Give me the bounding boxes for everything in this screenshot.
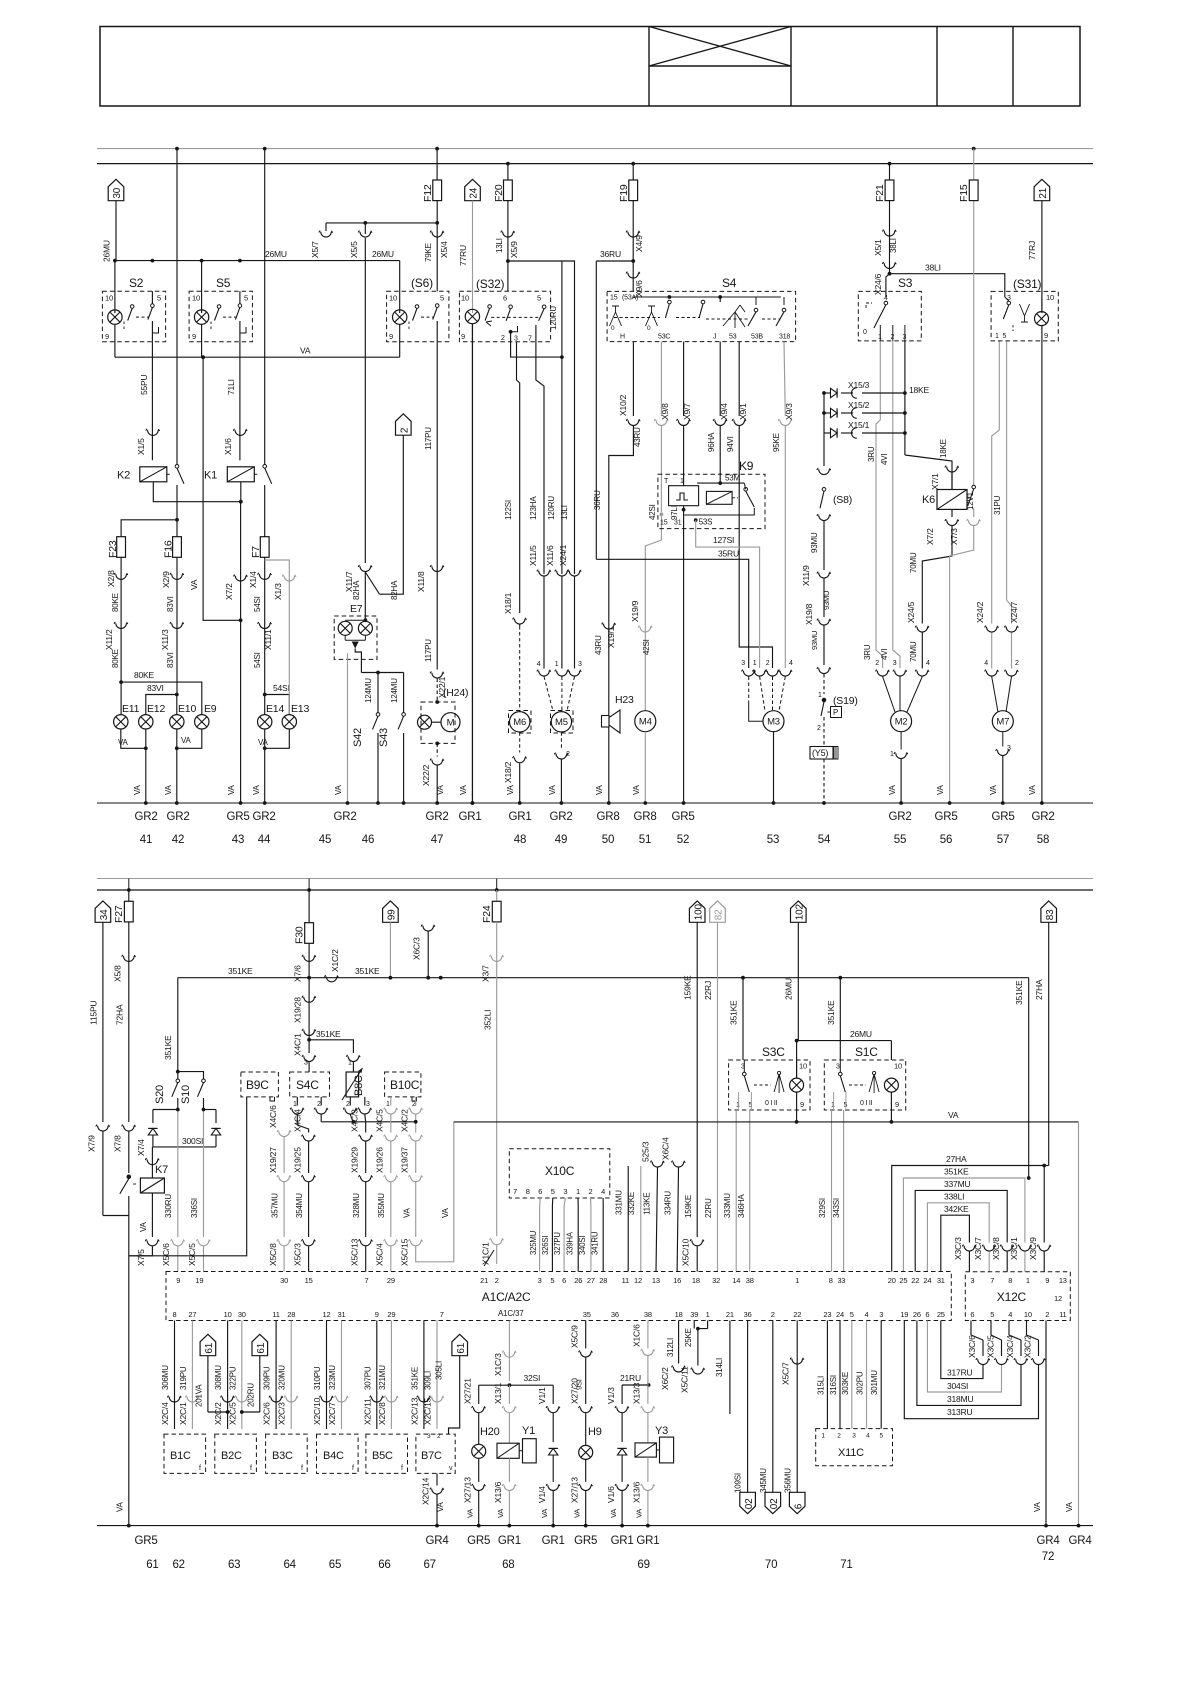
svg-text:GR5: GR5 <box>134 1535 157 1547</box>
svg-text:S10: S10 <box>180 1085 192 1104</box>
wire pin 36 109SI arrow 02 <box>747 1321 749 1493</box>
svg-text:B4C: B4C <box>323 1450 344 1462</box>
svg-text:1: 1 <box>795 1276 799 1285</box>
svg-text:351KE: 351KE <box>944 1167 969 1177</box>
svg-text:202RU: 202RU <box>247 1383 256 1407</box>
svg-text:18: 18 <box>675 1310 683 1319</box>
svg-text:316SI: 316SI <box>829 1375 838 1395</box>
fuse F20 <box>507 164 509 180</box>
svg-text:X2C/8: X2C/8 <box>377 1402 387 1425</box>
wire 120RU to M5 <box>561 357 563 568</box>
svg-text:68: 68 <box>502 1559 514 1571</box>
svg-text:120RU: 120RU <box>547 496 556 520</box>
wire 352LI <box>496 922 498 1236</box>
svg-text:7: 7 <box>528 336 532 343</box>
nested wires 317RU 304SI 318MU 313RU <box>904 1321 1038 1419</box>
svg-text:16: 16 <box>673 1276 681 1285</box>
svg-text:X27/20: X27/20 <box>570 1378 580 1404</box>
svg-text:3: 3 <box>836 1064 840 1071</box>
column X4C/6 X19/27 X5C/8 to pin 30 <box>277 1130 291 1136</box>
svg-text:318: 318 <box>779 334 790 341</box>
arrow 83 <box>1041 901 1057 922</box>
svg-text:351KE: 351KE <box>1014 980 1024 1005</box>
svg-text:45: 45 <box>319 834 331 846</box>
svg-text:1: 1 <box>680 478 684 485</box>
svg-text:X19/8: X19/8 <box>804 603 814 625</box>
svg-text:X24/5: X24/5 <box>906 601 916 623</box>
svg-text:61: 61 <box>456 1342 467 1353</box>
svg-text:M6: M6 <box>513 717 526 728</box>
svg-text:X7/5: X7/5 <box>136 1249 146 1266</box>
svg-text:307PU: 307PU <box>363 1366 372 1390</box>
svg-text:10: 10 <box>894 1062 902 1071</box>
svg-text:V1/6: V1/6 <box>606 1486 616 1503</box>
svg-text:X1C/1: X1C/1 <box>481 1242 491 1265</box>
svg-text:72HA: 72HA <box>115 1004 125 1025</box>
svg-text:351KE: 351KE <box>729 1000 739 1025</box>
wire 26MU link S3C S1C <box>795 1039 799 1043</box>
svg-text:E10: E10 <box>178 703 196 715</box>
svg-text:(S31): (S31) <box>1013 277 1042 291</box>
svg-text:GR2: GR2 <box>549 811 572 823</box>
svg-text:X5C/3: X5C/3 <box>293 1243 303 1266</box>
motor M5 with connectors <box>543 568 545 574</box>
svg-text:55: 55 <box>894 834 906 846</box>
svg-text:2: 2 <box>589 1187 593 1196</box>
svg-text:X5C/7: X5C/7 <box>781 1362 791 1385</box>
svg-text:26MU: 26MU <box>102 240 112 262</box>
svg-text:M3: M3 <box>767 717 780 728</box>
wire K2/K1 coil common <box>153 482 241 502</box>
wire 159KE to pin 18 <box>696 922 698 1237</box>
svg-text:VA: VA <box>548 784 557 795</box>
svg-text:M: M <box>447 718 455 729</box>
svg-text:312LI: 312LI <box>666 1338 675 1357</box>
svg-text:F16: F16 <box>163 540 175 558</box>
svg-text:159KE: 159KE <box>683 975 693 1000</box>
upper ground rail <box>97 802 1093 804</box>
svg-text:X27/21: X27/21 <box>463 1378 473 1404</box>
svg-text:3: 3 <box>970 1276 974 1285</box>
svg-text:13LI: 13LI <box>560 505 569 520</box>
svg-text:24: 24 <box>836 1310 844 1319</box>
svg-text:3RU: 3RU <box>863 644 872 660</box>
svg-text:34: 34 <box>99 909 110 920</box>
svg-text:X4C/1: X4C/1 <box>293 1033 303 1056</box>
svg-text:26: 26 <box>913 1310 921 1319</box>
svg-text:F7: F7 <box>250 546 262 558</box>
svg-text:H: H <box>620 334 625 341</box>
wire S3C pin 9 to VA <box>796 1092 798 1122</box>
svg-text:3: 3 <box>514 336 518 343</box>
svg-text:X5/9: X5/9 <box>509 241 519 258</box>
svg-text:X7/2: X7/2 <box>925 528 935 545</box>
wire VA collector upper <box>115 356 400 358</box>
svg-text:GR4: GR4 <box>1036 1535 1060 1547</box>
wire 82HA X5/5 to X11/7 <box>364 238 366 563</box>
wire pin 22 356MU arrow 6 <box>796 1321 798 1493</box>
lower feed rail (gray) <box>97 878 1093 880</box>
svg-text:31PU: 31PU <box>993 495 1002 515</box>
svg-text:X1/5: X1/5 <box>136 438 146 455</box>
wire from feed rail through K2 contact <box>176 149 178 465</box>
svg-text:13: 13 <box>1059 1276 1067 1285</box>
svg-text:113KE: 113KE <box>643 1193 652 1215</box>
wire 117PU <box>436 342 438 670</box>
wire 115PU <box>102 922 104 1122</box>
svg-text:19: 19 <box>195 1276 203 1285</box>
svg-text:X7/2: X7/2 <box>224 583 234 600</box>
wire 54SI lamp circuit E14/E13 <box>264 557 266 694</box>
svg-text:X9/7: X9/7 <box>682 403 692 420</box>
wire 351KE branch S1C <box>838 976 842 980</box>
wire 80KE lamp circuit E11/E9 <box>120 557 122 682</box>
svg-text:117PU: 117PU <box>424 639 433 662</box>
switch S6 contact on 117PU wire <box>435 304 439 308</box>
relay K2 contact <box>175 465 179 469</box>
svg-text:X24/1: X24/1 <box>558 544 568 566</box>
svg-text:9: 9 <box>105 332 109 341</box>
svg-text:GR2: GR2 <box>166 811 189 823</box>
svg-text:20: 20 <box>888 1276 896 1285</box>
svg-text:93MU: 93MU <box>810 631 819 650</box>
svg-text:X2C/5: X2C/5 <box>227 1402 237 1425</box>
svg-text:X3C/4: X3C/4 <box>1005 1335 1015 1358</box>
svg-text:V1/4: V1/4 <box>537 1486 547 1503</box>
svg-text:VA: VA <box>227 784 236 795</box>
valve Y1 branch <box>508 1385 510 1404</box>
svg-text:25: 25 <box>899 1276 907 1285</box>
svg-text:X11/3: X11/3 <box>160 629 170 650</box>
svg-text:2: 2 <box>1045 1310 1049 1319</box>
svg-text:X4C/2: X4C/2 <box>400 1109 410 1132</box>
svg-text:323MU: 323MU <box>328 1365 337 1390</box>
diode X15/2 <box>822 411 826 415</box>
svg-text:GR4: GR4 <box>425 1535 449 1547</box>
svg-text:VA: VA <box>300 346 311 356</box>
svg-text:6: 6 <box>793 1503 804 1509</box>
svg-text:325MU: 325MU <box>529 1230 538 1255</box>
svg-text:X3C/9: X3C/9 <box>1028 1237 1038 1260</box>
wire 4VI S3 to M2 <box>892 341 894 430</box>
diode S10 branch <box>215 1110 217 1124</box>
svg-text:4: 4 <box>601 1187 605 1196</box>
svg-text:X13/6: X13/6 <box>493 1481 503 1503</box>
switch K7 contact <box>127 1175 131 1179</box>
svg-text:M5: M5 <box>555 717 568 728</box>
svg-text:F15: F15 <box>958 184 970 202</box>
arrow 24 <box>465 179 481 200</box>
svg-text:51: 51 <box>639 834 651 846</box>
svg-text:70MU: 70MU <box>909 552 918 573</box>
svg-text:77RJ: 77RJ <box>1027 241 1037 260</box>
svg-text:V1/3: V1/3 <box>606 1387 616 1404</box>
svg-text:340SI: 340SI <box>578 1236 587 1255</box>
svg-text:18KE: 18KE <box>909 385 930 395</box>
svg-text:4VI: 4VI <box>880 454 889 465</box>
wire 82HA arrow2 to X11/7 <box>380 435 404 594</box>
svg-text:352LI: 352LI <box>483 1010 493 1030</box>
svg-text:X11/9: X11/9 <box>801 565 811 586</box>
svg-text:F27: F27 <box>113 905 125 923</box>
svg-text:109SI: 109SI <box>734 1473 743 1493</box>
svg-text:5: 5 <box>879 1433 883 1440</box>
svg-text:GR8: GR8 <box>633 811 656 823</box>
svg-text:18KE: 18KE <box>939 439 948 458</box>
svg-text:55PU: 55PU <box>139 374 149 395</box>
svg-text:X3C/3: X3C/3 <box>953 1237 963 1260</box>
motor M2 connectors <box>915 626 929 632</box>
svg-text:X4C/5: X4C/5 <box>375 1109 385 1132</box>
svg-text:9: 9 <box>1044 331 1048 340</box>
svg-text:X11/6: X11/6 <box>545 545 555 566</box>
svg-text:B7C: B7C <box>421 1450 442 1462</box>
connector X1/5 <box>146 429 160 435</box>
connector X22/2 <box>436 743 438 756</box>
svg-text:1: 1 <box>995 333 999 340</box>
svg-text:2: 2 <box>875 660 879 667</box>
svg-text:02: 02 <box>769 1498 780 1509</box>
wire X10/2 to H23 column <box>632 342 634 416</box>
arrow 82 <box>710 901 726 922</box>
svg-text:F30: F30 <box>294 926 306 944</box>
wire F19 to S4 <box>632 201 634 292</box>
wires to B3C <box>275 1321 277 1430</box>
svg-text:VA: VA <box>252 784 261 795</box>
svg-text:0 I II: 0 I II <box>765 1100 778 1107</box>
svg-text:27HA: 27HA <box>946 1154 967 1164</box>
wire S32 pin2 jog to 120RU column <box>509 330 513 334</box>
svg-text:M7: M7 <box>996 717 1009 728</box>
svg-text:VA: VA <box>609 1509 618 1518</box>
svg-text:95KE: 95KE <box>772 433 781 452</box>
svg-text:3: 3 <box>563 1187 567 1196</box>
svg-text:3: 3 <box>427 1433 431 1440</box>
wire S6 lamp feed <box>399 261 401 313</box>
diode V1/1 branch <box>552 1385 554 1404</box>
svg-text:X24/2: X24/2 <box>975 601 985 623</box>
wire X1C/3 32SI <box>508 1321 510 1382</box>
wires to B1C <box>174 1321 176 1430</box>
connector X11/9 <box>817 572 831 578</box>
wire 13LI F20 to S32 <box>507 201 509 292</box>
svg-text:7: 7 <box>513 1187 517 1196</box>
svg-text:GR1: GR1 <box>542 1535 565 1547</box>
svg-text:9: 9 <box>375 1310 379 1319</box>
svg-text:356MU: 356MU <box>784 1468 793 1493</box>
svg-text:4: 4 <box>926 660 930 667</box>
svg-text:83VI: 83VI <box>166 596 175 612</box>
svg-text:VA: VA <box>466 1509 475 1518</box>
svg-text:F23: F23 <box>107 540 119 558</box>
svg-text:23: 23 <box>823 1310 831 1319</box>
svg-text:X5C/15: X5C/15 <box>400 1238 410 1266</box>
motor M6 with connectors X18/1 X18/2 <box>519 568 521 613</box>
svg-text:3: 3 <box>366 1101 370 1108</box>
svg-text:X2C/3: X2C/3 <box>277 1402 287 1425</box>
svg-text:VA: VA <box>595 784 604 795</box>
svg-text:11: 11 <box>622 1276 629 1285</box>
svg-text:X5/8: X5/8 <box>113 965 123 982</box>
svg-text:346HA: 346HA <box>737 1194 746 1218</box>
svg-text:X15/3: X15/3 <box>848 380 870 390</box>
svg-text:1: 1 <box>736 1102 740 1109</box>
svg-text:71LI: 71LI <box>226 379 236 395</box>
wire 71LI S5 to K1 <box>239 342 241 461</box>
wire pin 18 X6C/2 <box>678 1321 680 1364</box>
svg-text:VA: VA <box>133 784 142 795</box>
wire 26MU distribution <box>115 260 400 262</box>
switch S42 <box>377 673 379 713</box>
wire 351KE main <box>178 977 1029 979</box>
svg-text:VA: VA <box>888 784 897 795</box>
svg-text:97LI: 97LI <box>670 505 679 520</box>
svg-text:80KE: 80KE <box>111 649 120 668</box>
svg-text:GR1: GR1 <box>508 811 531 823</box>
svg-text:13LI: 13LI <box>495 238 504 253</box>
svg-text:X3C/8: X3C/8 <box>991 1237 1001 1260</box>
svg-text:F21: F21 <box>874 184 886 202</box>
svg-text:X22/2: X22/2 <box>421 764 431 786</box>
svg-text:VA: VA <box>403 1207 412 1218</box>
svg-text:4: 4 <box>865 1310 869 1319</box>
svg-text:43: 43 <box>232 834 244 846</box>
wire 18KE S3 pin3 to diodes and K6 <box>904 341 906 455</box>
svg-text:8: 8 <box>173 1310 177 1319</box>
diode X15/3 <box>822 391 826 395</box>
svg-text:319PU: 319PU <box>179 1366 188 1390</box>
svg-text:66: 66 <box>378 1559 390 1571</box>
svg-text:54SI: 54SI <box>273 683 290 693</box>
wires to B5C <box>376 1321 378 1430</box>
svg-text:302PU: 302PU <box>856 1371 865 1395</box>
fuse F24 <box>496 890 498 902</box>
svg-text:26MU: 26MU <box>265 249 287 259</box>
svg-text:329SI: 329SI <box>818 1198 827 1218</box>
svg-text:41: 41 <box>140 834 152 846</box>
connector block X11C <box>816 1429 893 1466</box>
svg-text:X1C/2: X1C/2 <box>330 949 340 972</box>
wire F30 to S4C <box>308 943 310 1053</box>
arrow 61b <box>252 1334 268 1355</box>
wire 83VI lamp circuit E12/E10 <box>176 557 178 694</box>
svg-text:314LI: 314LI <box>715 1358 724 1377</box>
svg-text:f: f <box>401 1465 403 1472</box>
svg-text:2: 2 <box>1015 660 1019 667</box>
VA U-link <box>416 1122 454 1262</box>
lamp H20 branch <box>478 1385 480 1404</box>
svg-text:82HA: 82HA <box>390 580 399 600</box>
svg-text:4VI: 4VI <box>880 649 889 660</box>
svg-text:2: 2 <box>501 335 505 342</box>
svg-text:21: 21 <box>1038 187 1049 198</box>
svg-text:9: 9 <box>895 1100 899 1109</box>
svg-text:1: 1 <box>576 1187 580 1196</box>
svg-text:32: 32 <box>712 1276 720 1285</box>
svg-text:5: 5 <box>537 294 541 303</box>
svg-text:X2C/2: X2C/2 <box>213 1402 223 1425</box>
svg-text:X3C/6: X3C/6 <box>967 1335 977 1358</box>
svg-text:9: 9 <box>461 332 465 341</box>
wire VA from E7 <box>347 653 349 803</box>
svg-text:X19/37: X19/37 <box>400 1147 410 1173</box>
svg-text:21: 21 <box>726 1310 734 1319</box>
svg-text:9: 9 <box>800 1100 804 1109</box>
svg-text:E9: E9 <box>204 703 217 715</box>
wire 26MU from arrow 30 <box>115 201 117 261</box>
svg-text:28: 28 <box>287 1310 295 1319</box>
svg-text:K7: K7 <box>155 1164 168 1176</box>
wire S32 pin3 122SI to M6 <box>516 342 518 380</box>
fuse F30 <box>308 890 310 924</box>
svg-text:VA: VA <box>1065 1501 1074 1512</box>
svg-text:VA: VA <box>1028 784 1037 795</box>
svg-text:9: 9 <box>389 332 393 341</box>
svg-text:X2/9: X2/9 <box>161 571 171 588</box>
svg-text:X5C/8: X5C/8 <box>268 1243 278 1266</box>
svg-text:339HA: 339HA <box>566 1231 575 1255</box>
svg-text:53C: 53C <box>658 334 670 341</box>
svg-text:27HA: 27HA <box>1034 979 1044 1000</box>
X10C pin wires to A1C <box>539 1198 542 1272</box>
svg-text:0: 0 <box>647 325 651 332</box>
svg-text:5: 5 <box>157 294 161 303</box>
svg-text:30: 30 <box>112 187 123 198</box>
svg-text:36: 36 <box>744 1310 752 1319</box>
svg-text:35: 35 <box>583 1310 591 1319</box>
svg-text:351KE: 351KE <box>355 966 380 976</box>
svg-text:X19/28: X19/28 <box>293 997 303 1023</box>
svg-text:6: 6 <box>562 1276 566 1285</box>
svg-text:12: 12 <box>634 1276 642 1285</box>
arrow 30 <box>108 179 124 200</box>
svg-text:300SI: 300SI <box>182 1136 203 1146</box>
svg-text:305LI: 305LI <box>435 1361 444 1380</box>
svg-text:2: 2 <box>400 427 411 433</box>
svg-text:4: 4 <box>537 661 541 668</box>
svg-text:19: 19 <box>900 1310 908 1319</box>
svg-text:42: 42 <box>172 834 184 846</box>
wire 72HA <box>128 922 130 1122</box>
control unit A1C/A2C <box>166 1272 951 1321</box>
wire S31 lamp to ground 58 <box>1041 326 1043 803</box>
svg-text:1: 1 <box>890 751 894 758</box>
svg-text:10: 10 <box>461 294 469 303</box>
svg-text:VA: VA <box>632 784 641 795</box>
svg-text:K2: K2 <box>117 470 130 482</box>
switch S8 <box>823 393 825 466</box>
svg-text:64: 64 <box>283 1559 296 1571</box>
wire S5 lamp <box>201 261 203 313</box>
svg-text:2: 2 <box>495 1276 499 1285</box>
wire 331MU to pin 11 <box>627 1166 629 1272</box>
svg-text:2: 2 <box>771 1310 775 1319</box>
svg-text:15: 15 <box>660 520 668 527</box>
svg-text:5: 5 <box>550 1276 554 1285</box>
wire pin 2 345MU arrow 02 <box>772 1321 774 1493</box>
svg-text:S3: S3 <box>898 276 913 290</box>
svg-text:X19/25: X19/25 <box>293 1147 303 1173</box>
wire 330RU to pin 9 <box>177 1110 179 1238</box>
svg-text:24: 24 <box>923 1276 931 1285</box>
svg-text:310PU: 310PU <box>313 1366 322 1390</box>
VA line left segment <box>321 1121 416 1123</box>
svg-text:3: 3 <box>578 661 582 668</box>
wire 22RU to pin 32 <box>717 922 719 1271</box>
svg-text:12: 12 <box>323 1310 331 1319</box>
svg-text:H20: H20 <box>480 1426 500 1438</box>
svg-text:X3C/2: X3C/2 <box>1023 1335 1033 1358</box>
